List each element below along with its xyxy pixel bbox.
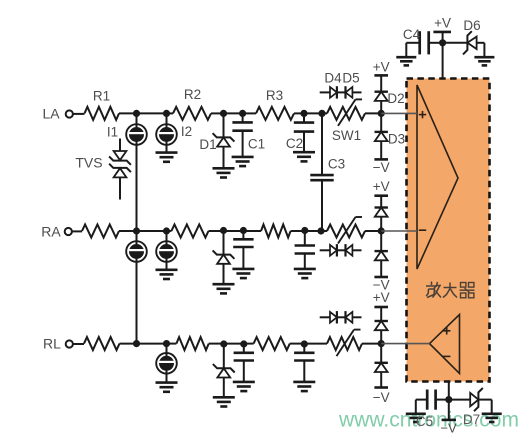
wire RA r2 to node3 <box>209 230 224 232</box>
zener diode RA row <box>213 231 235 293</box>
svg-text:D3: D3 <box>388 132 405 147</box>
node junction RL-4 <box>240 340 247 347</box>
wire R1 to node <box>119 112 137 114</box>
wire RA current source down to RL rail <box>136 262 138 344</box>
svg-text:R2: R2 <box>184 87 201 102</box>
capacitor C4 label <box>403 27 421 42</box>
op-amp U2 (lower amplifier triangle) <box>430 315 460 374</box>
wire I2 to ground <box>166 145 168 153</box>
wire LA node3 to node4 <box>224 112 243 114</box>
svg-text:+V: +V <box>434 16 451 31</box>
ground below RA-b source <box>156 270 178 279</box>
terminal LA <box>66 110 73 117</box>
svg-text:D5: D5 <box>342 71 359 86</box>
switch RL row (variable resistor) <box>327 330 362 357</box>
wire RA C3 node to switch <box>321 230 327 232</box>
node junction LA-3 <box>220 110 227 117</box>
resistor R3 <box>256 107 294 120</box>
TVS label <box>75 155 102 171</box>
svg-text:I2: I2 <box>181 124 192 139</box>
svg-text:D7: D7 <box>463 412 480 427</box>
wire RL r3 to node5 <box>290 343 305 345</box>
node junction LA clamp <box>378 110 385 117</box>
op-amp U2 - input marker <box>443 355 450 357</box>
zener diode D7 <box>449 388 502 422</box>
diode pair RL row <box>320 311 362 323</box>
wire RA node5 to C3 node <box>305 230 321 232</box>
capacitor C5 <box>406 390 449 423</box>
svg-text:D1: D1 <box>199 137 216 152</box>
svg-text:D4: D4 <box>324 71 342 86</box>
op-amp U1 - input marker <box>419 229 426 231</box>
capacitor C2 <box>293 113 315 161</box>
node junction RL-2 <box>163 340 170 347</box>
wire LA into amplifier + input <box>381 112 417 114</box>
svg-text:D6: D6 <box>463 18 480 33</box>
wire SW1 to clamp node LA <box>365 112 381 114</box>
wire LA node5 to node6 <box>304 112 322 114</box>
wire I1 down to RA rail <box>136 145 138 231</box>
svg-text:RL: RL <box>43 336 61 352</box>
resistor RL-1 <box>84 337 120 350</box>
svg-text:+V: +V <box>373 290 390 305</box>
node LA label <box>42 105 60 121</box>
node RA label <box>41 223 61 239</box>
svg-text:C1: C1 <box>248 137 265 152</box>
node RL label <box>43 336 61 352</box>
zener diode D1 <box>213 113 235 177</box>
resistor RA-1 <box>82 225 119 238</box>
wire supply node down toward -V <box>448 400 450 420</box>
wire RL into amplifier lower input <box>381 343 429 345</box>
svg-text:+V: +V <box>373 60 390 75</box>
node junction RL-3 <box>220 340 227 347</box>
zener D1 label <box>199 137 216 152</box>
wire RL node1 to node2 <box>137 343 167 345</box>
wire amplifier box down to bottom supply node <box>448 382 450 400</box>
switch SW1 label <box>332 128 361 143</box>
current source I1 label <box>107 125 118 140</box>
node junction RA-5 <box>301 227 308 234</box>
wire supply node down to amplifier box <box>442 43 444 79</box>
node junction RA-1 <box>133 227 140 234</box>
resistor R1 label <box>93 89 110 104</box>
node junction RL-1 (end of dropper wire) <box>133 340 140 347</box>
capacitor RA row second <box>294 231 316 278</box>
svg-text:RA: RA <box>41 223 61 239</box>
node junction RA-C3 <box>317 227 324 234</box>
node junction RL clamp <box>378 340 385 347</box>
node junction RL-5 <box>301 340 308 347</box>
amplifier label text (fang da qi) <box>426 282 475 298</box>
capacitor C1 <box>232 113 254 166</box>
diode pair D4 D5 <box>320 86 362 98</box>
amplifier block (dashed orange box) <box>407 79 490 382</box>
svg-text:D2: D2 <box>387 91 404 106</box>
capacitor C5 label <box>416 414 433 429</box>
diode D5 label <box>342 71 359 86</box>
diode D6 label <box>463 18 480 33</box>
svg-text:R1: R1 <box>93 89 110 104</box>
ground below RL source <box>156 383 178 392</box>
wire RA r3 to node5 <box>291 230 305 232</box>
diode D4 label <box>324 71 342 86</box>
TVS bidirectional suppressor <box>109 139 131 200</box>
node junction LA-5 <box>300 110 307 117</box>
terminal RL <box>66 340 73 347</box>
node junction bottom supply <box>445 396 452 403</box>
capacitor RL row second <box>293 344 315 392</box>
svg-text:−V: −V <box>373 160 390 175</box>
wire LA terminal to R1 <box>73 113 85 115</box>
op-amp U2 + input marker <box>443 327 450 334</box>
wire LA node6 to SW1 <box>322 112 327 114</box>
diode D2 label <box>387 91 404 106</box>
ground below I2 <box>156 153 178 162</box>
diode D3 label <box>388 132 405 147</box>
current source I2 label <box>181 124 192 139</box>
wire LA node4 to R3 <box>243 112 256 114</box>
capacitor C3 (between LA node and RA rail) <box>310 113 333 231</box>
node junction RA-4 <box>240 227 247 234</box>
+V supply label (top) <box>434 16 451 31</box>
node junction RA-2 <box>163 227 170 234</box>
svg-text:+V: +V <box>373 179 390 194</box>
wire R2 to node3 <box>211 112 224 114</box>
watermark text www.cntronics.com <box>338 409 519 432</box>
current source RA-a <box>126 231 147 262</box>
current source RL <box>156 344 177 374</box>
op-amp U1 (main amplifier triangle) <box>417 85 458 269</box>
clamp diodes D2 D3 chain (+V/-V) <box>373 60 390 175</box>
node junction RA-3 <box>220 227 227 234</box>
svg-text:C3: C3 <box>328 157 345 172</box>
wire RL node5 to switch <box>304 343 327 345</box>
svg-text:SW1: SW1 <box>332 128 361 143</box>
wire RL source to ground <box>166 374 168 383</box>
current source RA-b <box>156 231 177 262</box>
capacitor C2 label <box>286 136 303 151</box>
svg-text:I1: I1 <box>107 125 118 140</box>
switch RA row (variable resistor) <box>327 217 365 244</box>
node junction LA-1 <box>133 110 140 117</box>
zener diode D6 <box>443 31 495 65</box>
wire RL node2 to resistor <box>167 343 177 345</box>
svg-text:−V: −V <box>373 390 390 405</box>
capacitor RL row first <box>233 344 255 392</box>
zener diode RL row <box>213 344 235 407</box>
wire RL node4 to resistor3 <box>244 343 254 345</box>
wire R3 to node5 <box>294 112 304 114</box>
wire RA node1 to node2 <box>137 230 167 232</box>
clamp diode chain RL (+V/-V) <box>373 290 390 405</box>
resistor RA-3 <box>261 225 291 238</box>
wire RA-b source to ground <box>166 262 168 270</box>
wire RA switch to clamp node <box>365 230 381 232</box>
op-amp U1 + input marker <box>419 111 426 118</box>
current source I2 <box>156 113 177 144</box>
clamp diode chain RA (+V/-V) <box>373 179 390 293</box>
node junction top supply <box>439 39 446 46</box>
node junction LA-4 <box>239 110 246 117</box>
resistor R3 label <box>266 88 283 103</box>
+V supply terminal bar (top) <box>433 31 451 34</box>
capacitor C3 label <box>328 157 345 172</box>
svg-text:C5: C5 <box>416 414 433 429</box>
resistor R2 label <box>184 87 201 102</box>
wire LA node1 to node2 <box>137 112 167 114</box>
-V supply label (bottom) <box>440 421 457 436</box>
wire RA node2 to resistor <box>167 230 172 232</box>
resistor R2 <box>173 107 211 120</box>
svg-text:C4: C4 <box>403 27 421 42</box>
wire RA into amplifier - input <box>381 230 417 232</box>
wire LA node2 to R2 <box>167 112 174 114</box>
svg-text:TVS: TVS <box>75 155 102 171</box>
wire RA node3 to node4 <box>224 230 244 232</box>
wire RL switch to clamp node <box>362 343 381 345</box>
node junction LA-2 <box>163 110 170 117</box>
capacitor RA row first <box>232 231 254 278</box>
wire RA r1 to node <box>119 230 137 232</box>
resistor R1 <box>85 107 120 120</box>
wire RA node4 to resistor3 <box>243 230 261 232</box>
wire RL r2 to node3 <box>209 343 224 345</box>
svg-text:−V: −V <box>440 421 457 436</box>
resistor RL-3 <box>254 337 290 350</box>
diode pair RA row <box>320 244 362 256</box>
node junction RA clamp <box>378 227 385 234</box>
diode D7 label <box>463 412 480 427</box>
switch SW1 (variable resistor) <box>327 99 365 126</box>
svg-text:C2: C2 <box>286 136 303 151</box>
capacitor C4 <box>396 31 442 65</box>
node junction LA-6 <box>318 110 325 117</box>
capacitor C1 label <box>248 137 265 152</box>
resistor RL-2 <box>176 337 208 350</box>
svg-text:R3: R3 <box>266 88 283 103</box>
wire RL r1 to node <box>120 343 137 345</box>
current source I1 <box>126 113 147 144</box>
wire RA terminal to resistor <box>72 230 82 232</box>
terminal RA <box>65 228 72 235</box>
wire RL node3 to node4 <box>224 343 244 345</box>
svg-text:LA: LA <box>42 105 60 121</box>
-V supply terminal bar (bottom) <box>442 419 456 422</box>
wire +V down to supply node <box>442 32 444 43</box>
resistor RA-2 <box>171 225 208 238</box>
wire RL terminal to resistor <box>73 343 84 345</box>
